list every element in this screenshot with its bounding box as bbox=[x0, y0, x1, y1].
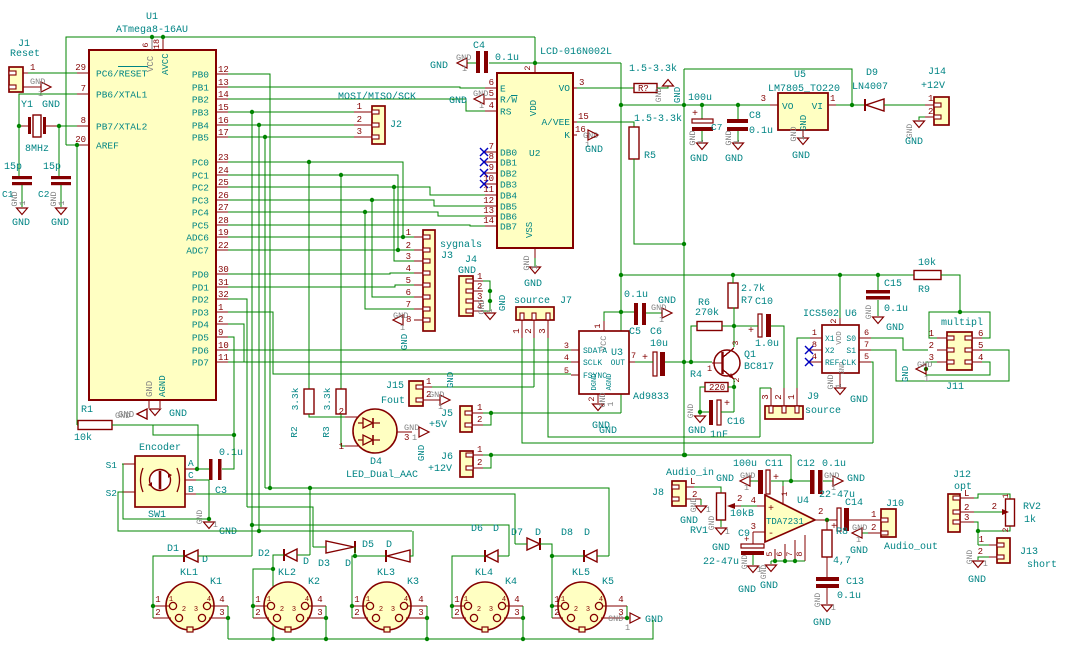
svg-text:PC0: PC0 bbox=[192, 158, 209, 169]
svg-text:1: 1 bbox=[928, 94, 933, 104]
svg-text:1: 1 bbox=[267, 596, 271, 604]
svg-text:C3: C3 bbox=[215, 486, 227, 497]
power GND at C11 bbox=[750, 480, 758, 482]
svg-text:C15: C15 bbox=[884, 279, 902, 290]
svg-text:2: 2 bbox=[829, 318, 839, 323]
svg-text:GND: GND bbox=[145, 381, 155, 397]
svg-text:2: 2 bbox=[992, 502, 997, 512]
DIN socket KL5 bbox=[558, 582, 606, 630]
wire +12V into U4 pin1 bbox=[790, 455, 792, 481]
svg-text:2: 2 bbox=[524, 328, 534, 333]
svg-text:13: 13 bbox=[483, 206, 494, 216]
svg-text:KL4: KL4 bbox=[475, 568, 493, 579]
svg-text:1: 1 bbox=[659, 315, 664, 325]
svg-text:KL5: KL5 bbox=[572, 568, 590, 579]
U6 GND pin bottom bbox=[839, 373, 841, 387]
svg-text:GND: GND bbox=[725, 154, 743, 165]
svg-text:GND: GND bbox=[824, 471, 839, 481]
svg-text:VI: VI bbox=[812, 101, 823, 112]
svg-text:3: 3 bbox=[219, 608, 224, 618]
svg-text:14: 14 bbox=[218, 90, 229, 100]
wire y435 link bbox=[153, 425, 234, 435]
wire S1 down bbox=[122, 464, 209, 519]
wire J6 pins bbox=[483, 455, 491, 468]
svg-text:PC3: PC3 bbox=[192, 196, 209, 207]
svg-text:GND: GND bbox=[673, 87, 683, 103]
svg-text:BC817: BC817 bbox=[744, 362, 774, 373]
svg-text:GND: GND bbox=[608, 614, 623, 624]
wire loop over U5 bbox=[684, 69, 852, 105]
wire PC3 branch to J3.6 bbox=[372, 200, 414, 297]
power GND at LCD R/W bbox=[474, 94, 484, 104]
svg-text:X2: X2 bbox=[825, 347, 835, 356]
svg-text:PB7/XTAL2: PB7/XTAL2 bbox=[96, 122, 148, 133]
svg-text:5: 5 bbox=[978, 341, 983, 351]
svg-text:2: 2 bbox=[218, 315, 223, 325]
svg-text:C8: C8 bbox=[749, 111, 761, 122]
svg-text:OUT: OUT bbox=[611, 359, 626, 368]
svg-text:1: 1 bbox=[479, 101, 484, 111]
svg-text:4: 4 bbox=[502, 596, 506, 604]
svg-text:10: 10 bbox=[218, 341, 229, 351]
svg-text:D8: D8 bbox=[561, 528, 573, 539]
svg-text:GND: GND bbox=[741, 555, 750, 570]
svg-text:U1: U1 bbox=[146, 12, 158, 23]
wire AREF down to R1 bbox=[76, 145, 78, 425]
svg-text:GND: GND bbox=[738, 585, 756, 596]
svg-text:0.1u: 0.1u bbox=[219, 448, 243, 459]
svg-text:PB6/XTAL1: PB6/XTAL1 bbox=[96, 90, 148, 101]
svg-text:LN4007: LN4007 bbox=[852, 82, 888, 93]
svg-text:1k: 1k bbox=[1024, 514, 1036, 526]
svg-text:DGND: DGND bbox=[591, 374, 599, 391]
svg-text:3: 3 bbox=[761, 94, 766, 104]
svg-text:C12: C12 bbox=[797, 459, 815, 470]
wire OUT to C6 bbox=[635, 361, 653, 363]
wire D1 cathode to KL1.1 bbox=[153, 556, 184, 606]
svg-text:2: 2 bbox=[354, 608, 359, 618]
svg-text:GND: GND bbox=[799, 115, 809, 131]
svg-text:1: 1 bbox=[400, 323, 405, 333]
svg-text:4: 4 bbox=[219, 595, 224, 605]
svg-text:J11: J11 bbox=[946, 382, 964, 393]
svg-text:C16: C16 bbox=[727, 417, 745, 428]
U4 pin 1 supply top bbox=[782, 486, 784, 505]
wire x273 to bus bbox=[272, 569, 274, 639]
svg-text:27: 27 bbox=[218, 203, 229, 213]
svg-text:4: 4 bbox=[564, 353, 569, 363]
svg-text:PD3: PD3 bbox=[192, 308, 209, 319]
capacitor C15 0.1u bbox=[877, 275, 879, 290]
svg-text:GND: GND bbox=[905, 137, 923, 148]
svg-text:4: 4 bbox=[317, 595, 322, 605]
svg-text:VO: VO bbox=[782, 101, 794, 112]
U1 bottom GND/AGND pins bbox=[148, 400, 150, 408]
svg-text:GND: GND bbox=[708, 516, 717, 531]
transistor Q1 BC817 bbox=[714, 350, 740, 376]
svg-text:2: 2 bbox=[182, 606, 186, 614]
svg-text:19: 19 bbox=[218, 228, 229, 238]
wire Q1 emitter down bbox=[733, 379, 735, 412]
wire D3 feed bbox=[247, 507, 313, 547]
svg-text:TDA7231: TDA7231 bbox=[766, 517, 804, 527]
svg-text:2: 2 bbox=[406, 241, 411, 251]
svg-text:D: D bbox=[584, 528, 590, 539]
svg-text:10u: 10u bbox=[650, 339, 668, 350]
svg-text:source: source bbox=[514, 296, 550, 307]
svg-text:9: 9 bbox=[218, 328, 223, 338]
svg-text:D2: D2 bbox=[258, 549, 270, 560]
svg-text:GND: GND bbox=[51, 218, 69, 229]
svg-text:15p: 15p bbox=[4, 162, 22, 173]
svg-text:Encoder: Encoder bbox=[139, 442, 181, 454]
wire PB0 net bbox=[228, 74, 270, 488]
wire C10 to J9.2 bbox=[771, 326, 784, 388]
wire PC2 branch to J3.3 bbox=[394, 187, 414, 261]
svg-text:REF: REF bbox=[825, 359, 840, 368]
svg-text:PD6: PD6 bbox=[192, 346, 209, 357]
power GND at encoder C/S1 bbox=[204, 522, 215, 529]
svg-text:K: K bbox=[564, 130, 570, 141]
svg-text:PD1: PD1 bbox=[192, 283, 209, 294]
svg-text:0.1u: 0.1u bbox=[837, 591, 861, 602]
svg-text:+12V: +12V bbox=[921, 81, 945, 92]
svg-text:GND: GND bbox=[42, 100, 60, 111]
svg-text:3: 3 bbox=[317, 608, 322, 618]
svg-text:6: 6 bbox=[864, 328, 869, 338]
wire D9 to J14 bbox=[884, 104, 925, 106]
wire XTAL1 net bbox=[19, 94, 77, 176]
wire D6 anode bbox=[498, 555, 509, 557]
svg-text:0.1u: 0.1u bbox=[749, 126, 773, 137]
U3 GND pin 2 bottom bbox=[597, 394, 599, 403]
no-connect X at LCD DB2 bbox=[480, 169, 488, 177]
svg-text:D1: D1 bbox=[167, 544, 179, 555]
svg-text:8: 8 bbox=[795, 551, 805, 556]
svg-text:+: + bbox=[773, 473, 779, 484]
svg-text:2: 2 bbox=[477, 415, 482, 425]
svg-text:10k: 10k bbox=[918, 257, 936, 269]
svg-text:GND: GND bbox=[599, 426, 617, 437]
wire R4 left to GND/C16 bbox=[700, 387, 709, 412]
svg-text:2: 2 bbox=[280, 606, 284, 614]
svg-text:15: 15 bbox=[578, 112, 589, 122]
wire R4 right to emitter bbox=[728, 386, 734, 388]
svg-text:GND: GND bbox=[901, 366, 911, 382]
svg-text:GND: GND bbox=[968, 575, 986, 586]
svg-text:1: 1 bbox=[454, 595, 459, 605]
svg-text:GND: GND bbox=[850, 395, 868, 406]
svg-text:4: 4 bbox=[751, 496, 756, 506]
svg-text:R8: R8 bbox=[836, 527, 848, 538]
wire PD5 jog bbox=[228, 337, 234, 435]
power GND at R4/C16 bbox=[699, 412, 701, 415]
svg-text:1: 1 bbox=[477, 272, 482, 282]
svg-text:AVCC: AVCC bbox=[161, 53, 171, 75]
svg-text:S1: S1 bbox=[846, 347, 856, 356]
svg-text:1: 1 bbox=[797, 135, 807, 140]
svg-text:PB2: PB2 bbox=[192, 95, 209, 106]
svg-text:2: 2 bbox=[357, 115, 362, 125]
svg-text:-: - bbox=[768, 529, 774, 540]
svg-text:2: 2 bbox=[255, 608, 260, 618]
svg-text:VSS: VSS bbox=[525, 222, 535, 238]
svg-text:28: 28 bbox=[218, 216, 229, 226]
svg-text:1: 1 bbox=[780, 491, 790, 496]
svg-text:C11: C11 bbox=[765, 459, 783, 470]
svg-text:A: A bbox=[188, 458, 194, 469]
svg-text:7: 7 bbox=[785, 551, 795, 556]
wire PD1 to J3.5 bbox=[228, 285, 414, 287]
svg-text:PB1: PB1 bbox=[192, 83, 209, 94]
svg-text:R7: R7 bbox=[741, 296, 753, 307]
svg-text:14: 14 bbox=[483, 216, 494, 226]
svg-text:11: 11 bbox=[483, 185, 494, 195]
svg-text:1.5-3.3k: 1.5-3.3k bbox=[629, 63, 677, 75]
svg-text:4: 4 bbox=[812, 352, 817, 362]
svg-text:J9: J9 bbox=[807, 392, 819, 403]
wire R1 to encoder A bbox=[112, 425, 198, 469]
U4 output pin 2 bbox=[815, 519, 820, 521]
svg-text:2: 2 bbox=[554, 608, 559, 618]
wire J7.2 to Fout bbox=[533, 338, 535, 387]
svg-text:1: 1 bbox=[732, 139, 742, 144]
svg-text:1: 1 bbox=[831, 604, 836, 613]
svg-text:KL2: KL2 bbox=[278, 568, 296, 579]
audio amplifier U4 TDA7231 bbox=[765, 495, 815, 542]
svg-text:A/VEE: A/VEE bbox=[541, 117, 570, 128]
svg-text:GND: GND bbox=[417, 445, 427, 461]
svg-text:8: 8 bbox=[81, 116, 86, 126]
svg-text:3: 3 bbox=[418, 608, 423, 618]
svg-text:DB4: DB4 bbox=[500, 191, 517, 202]
wire R7 to Q1 collector bbox=[733, 308, 734, 347]
svg-text:RV2: RV2 bbox=[1023, 502, 1041, 513]
wire PD0 to J3.4 bbox=[228, 273, 414, 274]
svg-text:D3: D3 bbox=[318, 559, 330, 570]
svg-text:2: 2 bbox=[477, 606, 481, 614]
potentiometer RV2 1k bbox=[1006, 499, 1015, 526]
svg-text:D: D bbox=[202, 555, 208, 566]
wire VCC rail from U1 top to LCD bbox=[66, 37, 535, 145]
svg-text:S1: S1 bbox=[106, 460, 118, 471]
svg-text:J6: J6 bbox=[441, 452, 453, 463]
svg-text:R9: R9 bbox=[918, 285, 930, 296]
svg-text:J8: J8 bbox=[652, 488, 664, 499]
no-connect X at U6 X2 bbox=[805, 346, 813, 354]
svg-text:K3: K3 bbox=[407, 577, 419, 588]
wire C6 to Q1 base bbox=[665, 361, 712, 363]
wire U4 -in to C9 bbox=[753, 531, 757, 533]
wire R5 bottom to +12V vert bbox=[634, 159, 684, 244]
svg-text:2: 2 bbox=[774, 394, 784, 399]
svg-text:C13: C13 bbox=[846, 577, 864, 588]
svg-text:U6: U6 bbox=[845, 309, 857, 320]
svg-text:1: 1 bbox=[561, 596, 565, 604]
svg-text:PD4: PD4 bbox=[192, 320, 209, 331]
svg-text:Fout: Fout bbox=[381, 396, 405, 407]
svg-text:PD7: PD7 bbox=[192, 358, 209, 369]
svg-text:1: 1 bbox=[477, 403, 482, 413]
svg-text:8: 8 bbox=[489, 152, 494, 162]
svg-text:GND: GND bbox=[792, 151, 810, 162]
svg-text:D4: D4 bbox=[370, 457, 382, 468]
wire PB4 to J2.2 bbox=[228, 124, 354, 126]
wire PB1 to LCD E bbox=[228, 87, 485, 88]
DIN socket KL3 bbox=[363, 582, 411, 630]
capacitor C8 0.1u bbox=[737, 105, 739, 119]
svg-text:2: 2 bbox=[587, 396, 597, 401]
svg-text:1: 1 bbox=[979, 535, 984, 545]
svg-text:1: 1 bbox=[218, 303, 223, 313]
LCD VDD pin 2 top bbox=[534, 63, 536, 73]
wire D2 riser bbox=[309, 488, 311, 555]
svg-text:+: + bbox=[692, 109, 698, 120]
svg-text:1: 1 bbox=[696, 139, 706, 144]
svg-text:1: 1 bbox=[462, 64, 467, 74]
svg-text:1: 1 bbox=[406, 228, 411, 238]
no-connect X at LCD DB0 bbox=[480, 148, 488, 156]
svg-text:B: B bbox=[188, 484, 194, 495]
wire VO to R? bbox=[577, 87, 634, 89]
svg-text:3.3k: 3.3k bbox=[322, 387, 333, 410]
svg-text:GND: GND bbox=[404, 423, 419, 433]
svg-text:1: 1 bbox=[554, 595, 559, 605]
svg-text:1: 1 bbox=[366, 596, 370, 604]
wire R9 to J11 pins 1/6 bbox=[941, 275, 960, 312]
svg-text:5: 5 bbox=[564, 366, 569, 376]
svg-text:GND: GND bbox=[690, 154, 708, 165]
svg-text:1: 1 bbox=[787, 394, 797, 399]
svg-text:C4: C4 bbox=[473, 41, 485, 52]
svg-text:3: 3 bbox=[731, 340, 741, 345]
svg-text:PB3: PB3 bbox=[192, 108, 209, 119]
svg-text:C: C bbox=[188, 470, 194, 481]
svg-text:1: 1 bbox=[512, 328, 522, 333]
wire PC1 down to R3 bbox=[340, 175, 342, 389]
power GND at RV1 bottom bbox=[720, 520, 722, 527]
svg-text:GND: GND bbox=[219, 527, 237, 538]
svg-text:11: 11 bbox=[218, 353, 229, 363]
power GND at J14 pin 2 bbox=[919, 117, 925, 120]
svg-text:J14: J14 bbox=[928, 67, 946, 78]
svg-text:1: 1 bbox=[255, 595, 260, 605]
svg-text:multipl: multipl bbox=[941, 317, 983, 329]
svg-text:C5: C5 bbox=[629, 327, 641, 338]
wire D8 feed row bbox=[265, 488, 609, 556]
svg-text:R4: R4 bbox=[690, 370, 702, 381]
wire KL5 pin4 to pin3 row bbox=[626, 606, 628, 618]
svg-text:VDD: VDD bbox=[836, 331, 844, 345]
svg-text:+12V: +12V bbox=[428, 464, 452, 475]
wire J1.1 to PC6/RESET bbox=[28, 72, 77, 74]
svg-text:3: 3 bbox=[538, 328, 548, 333]
U6 VDD pin top bbox=[839, 318, 841, 325]
power GND at KL5 pin 3 bbox=[630, 613, 640, 623]
svg-text:2: 2 bbox=[454, 608, 459, 618]
U5 GND pin bottom bbox=[802, 130, 804, 137]
svg-text:17: 17 bbox=[218, 128, 229, 138]
wire +5V to LCD VDD and C4 bbox=[489, 62, 621, 64]
svg-text:Audio_out: Audio_out bbox=[884, 541, 938, 553]
wire analog +5V rail bbox=[621, 274, 914, 276]
wire A to C3 bbox=[196, 468, 209, 470]
svg-text:D: D bbox=[386, 540, 392, 551]
svg-text:K2: K2 bbox=[308, 577, 320, 588]
svg-text:GND: GND bbox=[449, 96, 467, 107]
svg-text:1: 1 bbox=[924, 374, 929, 384]
svg-text:3: 3 bbox=[292, 606, 296, 614]
svg-text:6: 6 bbox=[141, 42, 151, 47]
svg-text:8MHz: 8MHz bbox=[25, 144, 49, 155]
svg-text:3.3k: 3.3k bbox=[290, 387, 301, 410]
svg-text:3: 3 bbox=[964, 513, 969, 523]
wire D5/D3 cathode to KL3.1 bbox=[352, 556, 386, 606]
svg-text:CLK: CLK bbox=[842, 359, 857, 368]
svg-text:K5: K5 bbox=[602, 577, 614, 588]
svg-text:U4: U4 bbox=[797, 496, 809, 507]
svg-text:22: 22 bbox=[218, 241, 229, 251]
svg-text:PC2: PC2 bbox=[192, 183, 209, 194]
wire PB3 to J2.1 bbox=[228, 111, 354, 113]
svg-text:KL1: KL1 bbox=[180, 568, 198, 579]
svg-text:PB0: PB0 bbox=[192, 70, 209, 81]
svg-text:GND: GND bbox=[645, 615, 663, 626]
svg-text:1nF: 1nF bbox=[710, 430, 728, 441]
svg-text:2: 2 bbox=[523, 65, 533, 70]
svg-text:GND: GND bbox=[966, 550, 975, 565]
svg-text:3: 3 bbox=[751, 522, 756, 532]
svg-text:4,7: 4,7 bbox=[833, 556, 851, 567]
U4 bottom pins 5/6/7/8 bbox=[774, 549, 776, 561]
svg-text:0.1u: 0.1u bbox=[884, 304, 908, 315]
svg-text:Q1: Q1 bbox=[744, 350, 756, 361]
svg-text:ATmega8-16AU: ATmega8-16AU bbox=[116, 25, 188, 36]
wire J12.1 to RV2 top bbox=[974, 494, 1010, 499]
svg-text:PC6/RESET: PC6/RESET bbox=[96, 69, 148, 80]
wire ADC7 to J3.2 bbox=[228, 249, 414, 251]
svg-text:2: 2 bbox=[1002, 527, 1011, 532]
wire PD7 SCLK bbox=[228, 361, 571, 363]
svg-text:2: 2 bbox=[339, 407, 344, 417]
power GND at J13.2 bbox=[989, 556, 997, 558]
svg-text:GND: GND bbox=[446, 372, 456, 388]
svg-text:R1: R1 bbox=[81, 405, 93, 416]
wire PD3 to FSYNC bbox=[228, 312, 571, 374]
wire R3 to D4 pin1 bbox=[341, 414, 345, 446]
DIN socket KL4 bbox=[461, 582, 509, 630]
svg-text:J13: J13 bbox=[1020, 547, 1038, 558]
svg-text:U5: U5 bbox=[794, 70, 806, 81]
svg-text:GND: GND bbox=[865, 305, 874, 320]
svg-text:Y1: Y1 bbox=[21, 100, 33, 111]
no-connect X at LCD DB3 bbox=[480, 180, 488, 188]
wire J8.L to RV1 bbox=[694, 487, 721, 493]
svg-text:RS: RS bbox=[500, 107, 512, 118]
U3 OUT pin 7 bbox=[629, 361, 635, 363]
svg-text:D: D bbox=[493, 524, 499, 535]
svg-text:15p: 15p bbox=[43, 162, 61, 173]
svg-text:7: 7 bbox=[864, 340, 869, 350]
svg-text:1: 1 bbox=[412, 433, 417, 443]
wire +5V vertical distribution bbox=[620, 63, 622, 413]
svg-text:3: 3 bbox=[194, 606, 198, 614]
svg-text:GND: GND bbox=[852, 523, 867, 533]
svg-text:2: 2 bbox=[477, 282, 482, 292]
svg-text:1: 1 bbox=[339, 442, 344, 452]
svg-text:GND: GND bbox=[585, 145, 603, 156]
svg-text:4: 4 bbox=[406, 264, 411, 274]
